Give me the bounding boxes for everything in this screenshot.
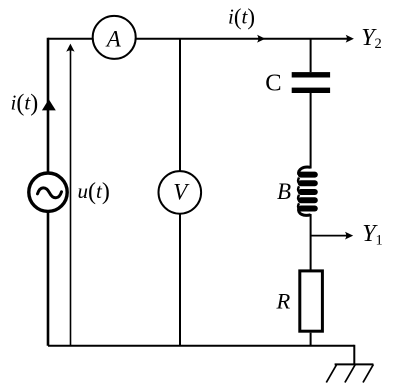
wire resistor to bottom: [310, 333, 312, 346]
wire top-left horizontal: [48, 38, 92, 40]
capacitor C top plate: [292, 72, 330, 77]
wire left vertical upper (source to top): [47, 38, 50, 172]
arrowhead Y1: [345, 232, 353, 240]
arrowhead Y2 output: [346, 35, 354, 43]
svg-text:R: R: [276, 289, 291, 314]
svg-text:i(t): i(t): [11, 90, 39, 116]
ammeter A circle: [93, 16, 136, 59]
resistor R body: [300, 271, 323, 331]
wire voltmeter branch upper: [179, 39, 181, 171]
ground hatch 1: [326, 364, 336, 382]
svg-text:A: A: [105, 26, 122, 51]
wire inductor to resistor: [310, 214, 312, 270]
voltage arrowhead u(t): [66, 44, 74, 52]
wire Y1 tap horizontal: [311, 235, 351, 237]
voltmeter V circle: [159, 171, 202, 214]
wire capacitor to inductor: [310, 93, 312, 169]
voltage arrow u(t) line: [70, 46, 72, 346]
AC source circle: [29, 173, 67, 211]
ground hatch 2: [345, 364, 355, 382]
wire top horizontal right of ammeter: [136, 38, 351, 40]
wire left vertical lower (source to bottom): [47, 212, 50, 346]
wire voltmeter branch lower: [179, 214, 181, 346]
wire bottom horizontal: [48, 345, 354, 347]
ground symbol bar: [335, 363, 374, 365]
svg-text:B: B: [277, 179, 291, 204]
AC source sine symbol: [38, 188, 62, 198]
wire right branch top (junction to capacitor): [310, 39, 312, 72]
svg-text:u(t): u(t): [78, 179, 110, 205]
wire ground drop: [353, 345, 355, 365]
capacitor C bottom plate: [292, 88, 330, 93]
svg-text:i(t): i(t): [228, 4, 255, 29]
arrowhead mid top wire i(t): [257, 35, 265, 43]
current arrow on left wire: [42, 99, 56, 110]
inductor B coil: [298, 167, 318, 215]
svg-text:C: C: [265, 70, 281, 97]
ground hatch 3: [363, 364, 373, 382]
